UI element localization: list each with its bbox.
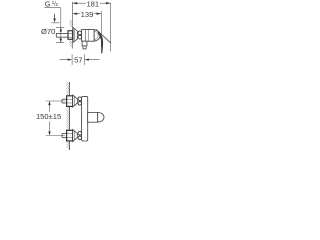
extension line 181 <box>110 3 112 51</box>
union nut (side view) <box>68 31 73 40</box>
union nut bottom (plan view) <box>67 130 73 141</box>
escutcheon bell top (plan view) <box>73 95 78 107</box>
mixer body (plan view) <box>82 96 88 141</box>
supply pipe stub (side view) <box>56 33 68 37</box>
supply pipe stub top (plan view) <box>62 99 68 103</box>
escutcheon bell (side view) <box>73 28 77 43</box>
supply pipe stub bottom (plan view) <box>62 134 68 138</box>
wall hatch (plan view) <box>66 81 69 149</box>
lever cylinder (plan view) <box>88 112 104 122</box>
union nut top (plan view) <box>67 96 73 107</box>
dimension Ø70 <box>41 27 64 42</box>
cartridge dome cap (side view) <box>94 30 100 41</box>
s-union rings bottom (plan view) <box>78 131 82 139</box>
dimension 57 <box>60 54 100 65</box>
svg-text:150±15: 150±15 <box>36 112 61 121</box>
G 1/2 leader arrow <box>52 14 60 23</box>
svg-text:2: 2 <box>55 2 58 8</box>
dimension 150±15 <box>36 101 65 136</box>
mixer body (side view) <box>82 30 95 42</box>
s-union rings top (plan view) <box>78 97 82 105</box>
svg-text:Ø70: Ø70 <box>41 27 55 36</box>
wall section line (side view) <box>72 2 74 49</box>
svg-text:57: 57 <box>74 55 82 64</box>
s-union rings (side view) <box>78 31 82 39</box>
svg-text:181: 181 <box>86 0 99 8</box>
lever edge line (side view) <box>96 29 111 43</box>
escutcheon bell bottom (plan view) <box>73 129 78 141</box>
svg-text:139: 139 <box>81 10 94 19</box>
extension line 139 <box>100 11 102 47</box>
lever blade (side view) <box>98 32 104 54</box>
shower outlet (side view) <box>82 41 87 49</box>
dimension 181 <box>73 0 111 8</box>
wall hatch (side view lower) <box>69 40 72 47</box>
wall hatch (side view upper) <box>70 20 73 28</box>
dimension 139 <box>73 10 102 19</box>
wall section line (plan view) <box>69 82 71 150</box>
svg-text:G: G <box>45 0 51 8</box>
label G 1/2 <box>44 0 60 28</box>
